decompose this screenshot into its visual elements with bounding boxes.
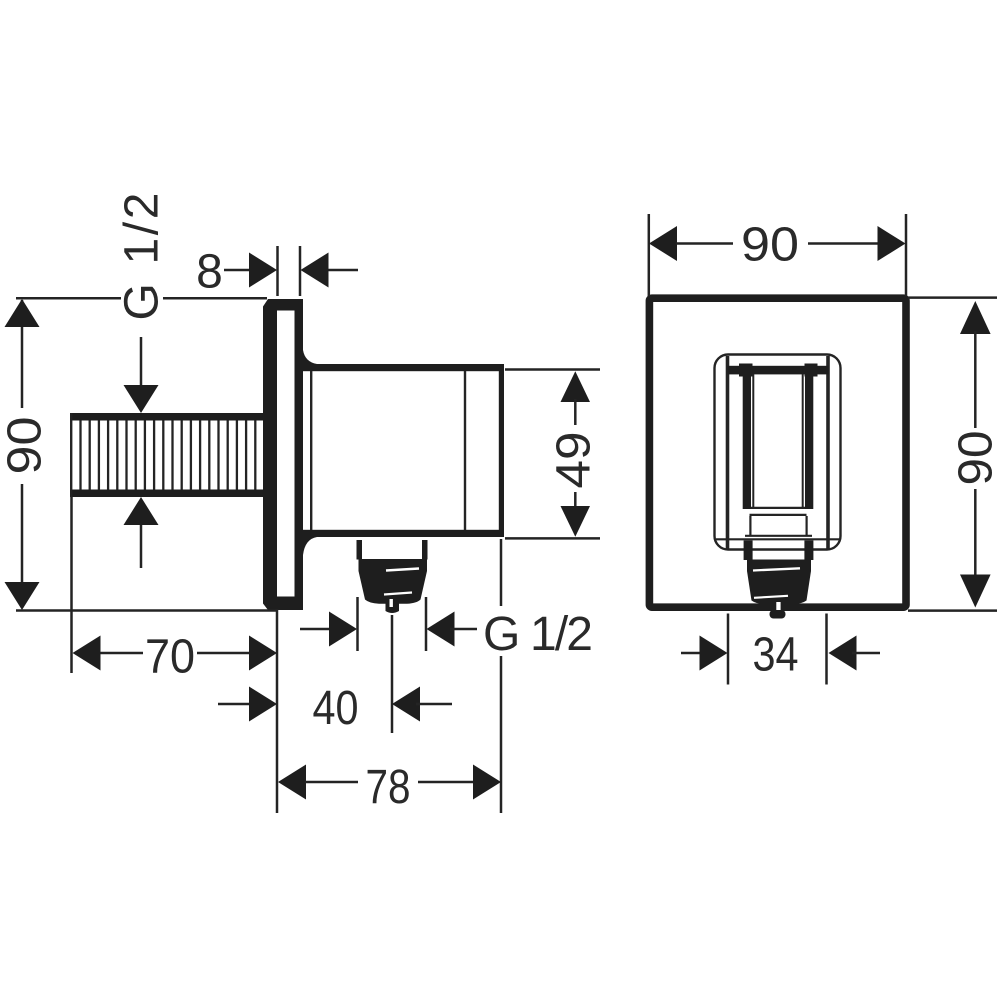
extension lines nipple sides (356, 597, 359, 651)
dimension G 1/2 bottom: label (478, 606, 600, 661)
extension line wall face (x=277) (276, 609, 279, 813)
svg-text:8: 8 (196, 246, 223, 299)
holder inner top line (728, 367, 828, 369)
svg-text:90: 90 (950, 431, 1000, 486)
extension line nipple centre (x=392) (391, 615, 394, 733)
dimension 90 left: line (21, 300, 24, 410)
escutcheon square 90x90 (649, 298, 906, 607)
wall plate (escutcheon, side view) (263, 299, 303, 610)
dimension 78 (278, 761, 501, 814)
svg-text:G 1/2: G 1/2 (483, 608, 593, 661)
dimension 90 top: extension lines (648, 214, 651, 296)
threaded pipe G1/2 body (hatched) (70, 413, 267, 497)
pipe thread hatch lines (81, 421, 256, 490)
holder inner vertical line left (726, 356, 730, 549)
svg-text:90: 90 (741, 219, 799, 272)
pipe diameter arrow up (124, 497, 159, 568)
extension line pipe left (x=71.5) (70, 497, 73, 673)
extension line top (y=298) (16, 297, 267, 300)
dimension G 1/2 bottom: arrows (300, 612, 477, 647)
fillet plate-to-body top (303, 350, 317, 364)
svg-text:40: 40 (313, 682, 359, 735)
dimension 70 (73, 631, 278, 684)
dimension 34: extension lines (727, 614, 730, 685)
cup inner wall lines (752, 374, 754, 507)
svg-text:G 1/2: G 1/2 (116, 193, 169, 321)
outlet collar (side view) (357, 540, 428, 560)
svg-text:90: 90 (0, 417, 52, 475)
cup wall right (805, 366, 813, 509)
cup floor lines (751, 507, 805, 509)
dimension 34 (681, 629, 880, 682)
holder lower shelf line (745, 535, 812, 537)
cup top end caps (739, 364, 753, 377)
dimension 90 left: label (0, 408, 52, 484)
dimension 90 right (950, 301, 1000, 608)
collar (front view) (744, 541, 753, 561)
dimension 49 (548, 371, 601, 537)
holder outer rounded rectangle (715, 355, 841, 550)
dimension 90 right: extension lines (908, 296, 997, 299)
dimension 8: leader and right-pointing arrow (224, 253, 277, 288)
cup top bar (728, 366, 829, 375)
dimension 8: left-pointing arrow with tail (301, 253, 359, 288)
extension line bottom (y=610.5) (16, 609, 276, 612)
svg-text:49: 49 (548, 432, 601, 489)
valve body (side view) (303, 364, 504, 537)
dimension 90 top (649, 219, 906, 272)
dimension 8: extension lines (276, 246, 279, 296)
dimension 49: extension lines (505, 368, 600, 371)
dimension 40 (218, 682, 452, 735)
outlet nipple G1/2 (side view) (359, 559, 428, 604)
cup wall left (743, 366, 751, 509)
label G 1/2 top (rotated) (116, 193, 169, 327)
dimension 90 left: top arrow (5, 299, 40, 327)
holder inner bottom line (716, 538, 840, 540)
drip tab (side view) (386, 599, 400, 613)
lower box sides (749, 516, 751, 536)
extension line body right (x=501) (500, 539, 503, 813)
nipple (front view) (747, 560, 811, 605)
bottom edge white tick (776, 602, 780, 612)
svg-text:34: 34 (753, 629, 799, 682)
pipe diameter arrow down (124, 337, 159, 413)
holder inner vertical line right (826, 356, 830, 549)
drip tab (front view) (770, 610, 786, 619)
svg-text:78: 78 (366, 761, 411, 814)
fillet plate-to-body bottom (303, 537, 317, 555)
svg-text:70: 70 (145, 631, 195, 684)
dimension 90 left: bottom arrow (5, 582, 40, 610)
